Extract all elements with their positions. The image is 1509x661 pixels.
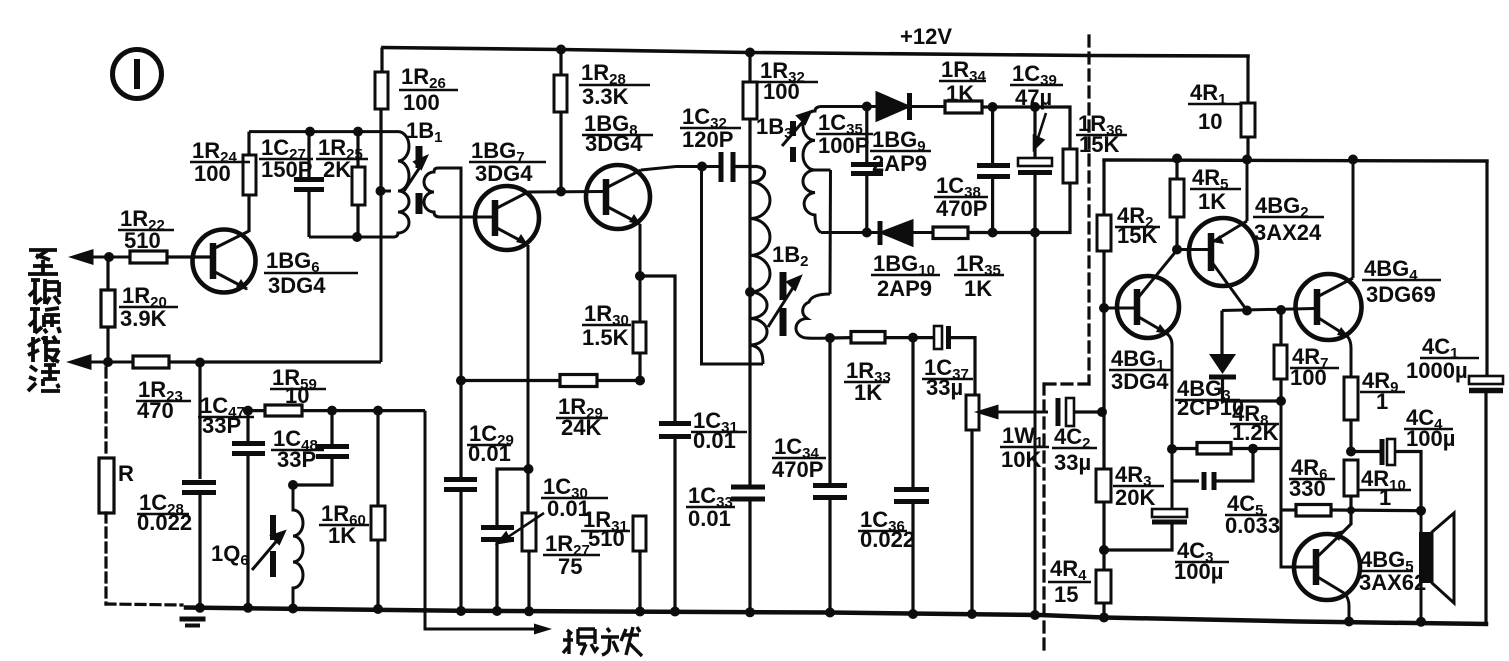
svg-text:3AX24: 3AX24 bbox=[1254, 220, 1322, 245]
svg-text:1.2K: 1.2K bbox=[1232, 420, 1279, 445]
junction dot lower wire at divider bbox=[103, 357, 113, 367]
svg-text:1K: 1K bbox=[964, 276, 992, 301]
svg-text:10: 10 bbox=[1198, 109, 1222, 134]
svg-text:100: 100 bbox=[763, 79, 800, 104]
resistor R1R28 3.3K bbox=[554, 50, 567, 192]
svg-text:100: 100 bbox=[194, 161, 231, 186]
svg-text:15K: 15K bbox=[1117, 223, 1157, 248]
resistor R1R32 100 bbox=[743, 53, 757, 293]
capacitor C4C3 100u electrolytic bbox=[1104, 509, 1187, 550]
potentiometer 1W1 10K bbox=[966, 395, 979, 614]
wire dashed boundary left bbox=[104, 368, 107, 458]
capacitor C1C34 470P bbox=[813, 338, 847, 613]
node arrow to video detector upper bbox=[73, 251, 131, 263]
capacitor C1C48 33P bbox=[293, 411, 349, 485]
svg-text:15K: 15K bbox=[1079, 132, 1119, 157]
svg-text:0.022: 0.022 bbox=[860, 527, 915, 552]
capacitor C4C4 100u electrolytic bbox=[1351, 439, 1421, 511]
node input label Chinese: to video detector bbox=[28, 250, 60, 391]
resistor R4R4 15 bbox=[1096, 570, 1111, 618]
svg-text:1.5K: 1.5K bbox=[582, 325, 629, 350]
wire y=237 (1C27/1R25 bottom to coil bottom) bbox=[309, 236, 395, 239]
svg-text:3DG4: 3DG4 bbox=[268, 273, 326, 298]
capacitor C4C5 0.033 bbox=[1172, 449, 1253, 490]
svg-text:1K: 1K bbox=[854, 380, 882, 405]
resistor R1R24 100 (collector load) bbox=[243, 132, 256, 232]
svg-text:1K: 1K bbox=[1198, 189, 1226, 214]
svg-text:120P: 120P bbox=[682, 127, 733, 152]
svg-text:470P: 470P bbox=[772, 457, 823, 482]
resistor R4R8 1.2K bbox=[1172, 443, 1281, 455]
diode D1BG9 2AP9 bbox=[877, 93, 945, 120]
svg-text:+12V: +12V bbox=[900, 24, 952, 49]
svg-text:2AP9: 2AP9 bbox=[872, 151, 927, 176]
svg-text:3AX62: 3AX62 bbox=[1359, 570, 1426, 595]
svg-text:1K: 1K bbox=[328, 523, 356, 548]
inductor 1Q6 peaking coil bbox=[293, 485, 303, 609]
svg-text:100P: 100P bbox=[818, 133, 869, 158]
svg-text:0.01: 0.01 bbox=[688, 506, 731, 531]
speaker bbox=[1420, 511, 1423, 622]
svg-text:2AP9: 2AP9 bbox=[877, 276, 932, 301]
wire detector bottom bus bbox=[821, 231, 879, 234]
resistor R4R2 15K bbox=[1097, 160, 1111, 308]
inductor 1B3 detector coil bbox=[803, 107, 821, 233]
wire 1B2 primary bottom return bbox=[702, 167, 764, 365]
resistor R1R27 75 bbox=[522, 469, 536, 612]
node +12V rail bbox=[383, 48, 1248, 57]
wire dashed boundary right bbox=[1087, 36, 1090, 384]
transistor Q1BG6 3DG4 bbox=[167, 230, 256, 293]
svg-text:3DG69: 3DG69 bbox=[1366, 282, 1436, 307]
svg-text:100µ: 100µ bbox=[1406, 426, 1455, 451]
svg-text:150P: 150P bbox=[261, 157, 312, 182]
svg-text:3.3K: 3.3K bbox=[582, 84, 629, 109]
inductor 1B2 secondary bbox=[796, 294, 830, 338]
junction dot 1R30 bottom bbox=[635, 376, 645, 386]
svg-text:33P: 33P bbox=[202, 413, 241, 438]
capacitor C1C37 33u electrolytic bbox=[934, 326, 975, 395]
wire 4BG1 emitter feedback node bbox=[1171, 449, 1174, 508]
svg-text:1K: 1K bbox=[946, 81, 974, 106]
transistor Q4BG2 3AX24 bbox=[1177, 160, 1257, 311]
svg-text:1: 1 bbox=[1376, 389, 1388, 414]
resistor R1R36 15K bbox=[1035, 149, 1077, 233]
wire 1B3 tap stub bbox=[815, 169, 831, 172]
capacitor C1C29 0.01 bbox=[444, 381, 477, 612]
resistor R1R35 1K bbox=[933, 227, 1035, 239]
resistor R1R31 510 bbox=[633, 516, 646, 612]
svg-text:3DG4: 3DG4 bbox=[1111, 369, 1169, 394]
resistor R1R25 2K bbox=[352, 132, 365, 237]
wire 1BG7 collector to 1BG8 base bbox=[528, 190, 604, 194]
svg-text:100: 100 bbox=[1290, 365, 1327, 390]
svg-text:470P: 470P bbox=[936, 196, 987, 221]
resistor R4R3 20K bbox=[1096, 308, 1111, 570]
svg-text:75: 75 bbox=[558, 554, 582, 579]
capacitor C1C28 0.022 bbox=[182, 362, 216, 608]
junction dot 1C28 tap bbox=[195, 358, 205, 368]
capacitor C1C31 0.01 bbox=[640, 276, 691, 612]
wire 1BG7 emitter branch bbox=[527, 245, 530, 469]
wire 1BG8 emitter chain bbox=[639, 224, 642, 322]
capacitor C1C33 0.01 bbox=[731, 292, 765, 612]
wire 1B3 tap to 1B2 secondary top bbox=[829, 170, 833, 294]
transistor Q1BG8 3DG4 bbox=[586, 165, 650, 229]
junction dot 1B2 secondary bottom bbox=[825, 333, 835, 343]
node 1B2 core bbox=[780, 272, 787, 300]
resistor R1R60 1K bbox=[371, 411, 385, 609]
svg-text:33µ: 33µ bbox=[1054, 450, 1091, 475]
wire detector top bus bbox=[820, 105, 876, 108]
resistor R1R20 3.9K bbox=[101, 257, 115, 362]
node 1Q6 core bbox=[270, 515, 276, 540]
node arrow to video detector lower bbox=[71, 356, 133, 368]
wire detector output down to ground bbox=[1034, 233, 1037, 616]
node label Chinese: video amplifier bbox=[563, 627, 642, 656]
transistor Q4BG5 3AX62 bbox=[1294, 530, 1360, 622]
svg-text:47µ: 47µ bbox=[1015, 85, 1052, 110]
resistor R1R30 1.5K bbox=[633, 322, 646, 381]
diode D4BG3 2CP10 bbox=[1209, 311, 1281, 402]
svg-text:0.022: 0.022 bbox=[137, 510, 192, 535]
capacitor C1C27 150P bbox=[294, 132, 324, 237]
resistor R1R23 470 bbox=[133, 356, 381, 368]
svg-text:100µ: 100µ bbox=[1174, 559, 1223, 584]
svg-text:0.01: 0.01 bbox=[468, 441, 511, 466]
resistor R1R29 24K feedback bbox=[461, 375, 640, 387]
diode D1BG10 2AP9 bbox=[880, 221, 933, 245]
resistor R (dashed branch) bbox=[99, 458, 114, 513]
transistor Q4BG1 3DG4 bbox=[1104, 250, 1179, 449]
wire 1BG6 emitter bus y=410.6 bbox=[243, 406, 253, 416]
ground bbox=[182, 617, 203, 622]
svg-text:0.033: 0.033 bbox=[1225, 513, 1280, 538]
svg-text:R: R bbox=[118, 461, 134, 486]
junction dot emitter bypass tap bbox=[635, 271, 645, 281]
resistor R4R10 1 bbox=[1340, 460, 1358, 535]
node amp supply rail bbox=[1104, 160, 1487, 161]
wire tap stub bbox=[381, 190, 391, 193]
inductor 1B2 primary bbox=[750, 182, 770, 292]
capacitor C1C36 0.022 bbox=[894, 338, 929, 614]
svg-text:24K: 24K bbox=[561, 415, 601, 440]
svg-text:20K: 20K bbox=[1115, 485, 1155, 510]
node 1B3 core bbox=[790, 121, 796, 136]
inductor 1B1 secondary bbox=[424, 168, 440, 217]
resistor R1R33 1K bbox=[830, 332, 934, 344]
resistor R1R26 100 (+12V feed) bbox=[375, 48, 388, 192]
node circled figure number 1 bbox=[113, 50, 162, 99]
inductor 1B1 primary bbox=[394, 132, 409, 237]
svg-text:2K: 2K bbox=[323, 157, 351, 182]
junction dot 1B2 tap bbox=[745, 287, 755, 297]
svg-text:33µ: 33µ bbox=[926, 375, 963, 400]
svg-text:15: 15 bbox=[1054, 582, 1078, 607]
svg-text:100: 100 bbox=[403, 90, 440, 115]
svg-text:510: 510 bbox=[124, 228, 161, 253]
resistor R4R7 100 bbox=[1274, 310, 1287, 401]
wire to video amp (shi fang) bbox=[425, 411, 537, 629]
svg-text:3DG4: 3DG4 bbox=[475, 161, 533, 186]
svg-text:470: 470 bbox=[137, 398, 174, 423]
node 1B1 core bbox=[416, 146, 423, 168]
resistor R4R6 330 bbox=[1281, 505, 1421, 517]
junction dot base divider upper bbox=[104, 252, 114, 262]
svg-text:33P: 33P bbox=[277, 447, 316, 472]
transistor Q4BG4 3DG69 bbox=[1296, 161, 1362, 377]
resistor R4R1 10 bbox=[1241, 56, 1255, 160]
wire 1B1 tap down to lower bus bbox=[380, 191, 383, 362]
capacitor C4C2 33u electrolytic bbox=[1058, 398, 1101, 426]
capacitor C4C1 1000u electrolytic bbox=[1469, 161, 1503, 624]
resistor R4R5 1K bbox=[1170, 159, 1184, 250]
resistor R1R59 10 bbox=[248, 405, 425, 416]
transistor Q1BG7 3DG4 bbox=[475, 186, 539, 250]
svg-text:10: 10 bbox=[285, 383, 309, 408]
svg-text:330: 330 bbox=[1289, 476, 1326, 501]
capacitor C1C47 33P bbox=[232, 411, 265, 608]
svg-text:1: 1 bbox=[1379, 485, 1391, 510]
resistor R4R9 1 bbox=[1344, 377, 1358, 452]
capacitor C1C35 100P bbox=[851, 107, 883, 233]
svg-text:0.01: 0.01 bbox=[693, 428, 736, 453]
wire collector top bus y=131.6 bbox=[249, 130, 398, 133]
capacitor C1C32 120P coupling bbox=[721, 152, 765, 182]
junction dot 1B1 tap bbox=[376, 186, 386, 196]
svg-text:3DG4: 3DG4 bbox=[585, 131, 643, 156]
svg-text:510: 510 bbox=[588, 526, 625, 551]
node ground rail bbox=[186, 608, 1486, 625]
wire 1W1 wiper arrow bbox=[979, 407, 1048, 418]
wire bias chain to 4BG5 base bbox=[1281, 401, 1313, 567]
resistor R1R22 bbox=[130, 251, 210, 263]
resistor R1R34 1K bbox=[945, 101, 1070, 149]
capacitor C1C39 47u electrolytic bbox=[1018, 107, 1052, 233]
capacitor C1C30 0.01 bbox=[481, 469, 528, 611]
svg-text:1000µ: 1000µ bbox=[1406, 358, 1468, 383]
svg-text:3.9K: 3.9K bbox=[120, 306, 167, 331]
wire driver output bus bbox=[1222, 309, 1314, 311]
wire 1BG8 collector bbox=[641, 167, 721, 171]
capacitor C1C38 470P bbox=[977, 107, 1010, 233]
